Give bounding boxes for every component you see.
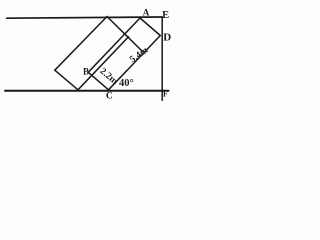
ceiling line [7, 17, 162, 18]
back board long edge T1-L [55, 17, 107, 71]
ground line [5, 90, 169, 92]
svg-text:A: A [143, 8, 150, 18]
svg-text:C: C [106, 91, 113, 101]
svg-text:D: D [163, 31, 171, 43]
back board end edge T1-S crossing AB [107, 17, 143, 52]
wall line EF [161, 17, 163, 100]
svg-text:40°: 40° [119, 78, 134, 89]
svg-text:B: B [83, 67, 89, 77]
svg-text:F: F [163, 90, 168, 99]
back board short edge L-Q1 [55, 70, 78, 90]
board edge DA [140, 18, 160, 36]
board edge CD [109, 36, 161, 90]
back board long edge Q1-R [78, 37, 129, 90]
board edge AB [88, 18, 140, 72]
svg-text:E: E [162, 10, 169, 21]
board edge BC [88, 72, 108, 90]
